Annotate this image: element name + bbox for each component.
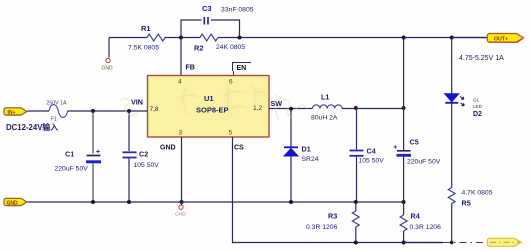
node rail junction R4 <box>402 200 406 204</box>
svg-text:105 50V: 105 50V <box>359 158 385 165</box>
inductor L1 <box>311 93 342 122</box>
svg-text:D2: D2 <box>473 111 482 118</box>
svg-text:7.5K 0805: 7.5K 0805 <box>128 45 159 52</box>
wire chip GND pin down <box>181 137 183 202</box>
svg-text:EN: EN <box>237 65 247 72</box>
resistor R5 <box>448 188 492 243</box>
svg-text:C4: C4 <box>367 147 376 156</box>
node VIN junction C2 <box>127 109 131 113</box>
svg-text:D1: D1 <box>302 145 311 154</box>
svg-text:6: 6 <box>229 79 233 86</box>
ground (top-left GND symbol) <box>102 58 114 71</box>
wire FB to pin 4 <box>180 38 182 76</box>
wire bottom out segment solid <box>404 242 443 244</box>
wire C1 column <box>92 111 94 202</box>
svg-text:SOP8-EP: SOP8-EP <box>196 106 229 115</box>
wire C4 column <box>356 108 358 202</box>
connector GND input <box>4 198 27 206</box>
svg-text:4: 4 <box>178 79 182 86</box>
resistor R1 <box>128 24 165 52</box>
wire SW line <box>269 108 404 110</box>
node bottom junction R5 <box>450 241 454 245</box>
svg-text:DC12-24V输入: DC12-24V输入 <box>6 122 58 132</box>
node FB junction <box>179 36 183 40</box>
svg-text:R4: R4 <box>411 212 420 221</box>
svg-text:C5: C5 <box>410 138 419 147</box>
wire input line <box>28 110 148 112</box>
svg-text:R2: R2 <box>194 44 204 53</box>
svg-text:C3: C3 <box>202 4 212 13</box>
svg-text:220uF 50V: 220uF 50V <box>407 159 441 166</box>
fuse F1 <box>47 101 68 123</box>
node VIN junction C1 <box>91 109 95 113</box>
connector OUT+ <box>487 33 523 42</box>
connector OUT- faded <box>487 238 521 246</box>
svg-text:C2: C2 <box>139 150 148 159</box>
watermark faint strokes <box>120 84 307 119</box>
svg-text:4.7K 0805: 4.7K 0805 <box>462 190 493 197</box>
svg-text:80uH 2A: 80uH 2A <box>311 115 338 122</box>
node bottom junction C2 <box>127 200 131 204</box>
svg-text:FB: FB <box>186 65 195 72</box>
svg-text:33nF 0805: 33nF 0805 <box>221 7 254 14</box>
svg-text:R3: R3 <box>328 212 337 221</box>
capacitor C1 <box>55 150 102 173</box>
svg-text:4.75-5.25V 1A: 4.75-5.25V 1A <box>459 55 504 62</box>
capacitor C3 <box>202 4 254 25</box>
node bottom junction R4 <box>402 241 406 245</box>
svg-text:GL: GL <box>473 98 480 103</box>
capacitor C5 <box>394 138 441 166</box>
svg-text:R5: R5 <box>462 199 471 208</box>
svg-text:0.3R 1206: 0.3R 1206 <box>306 224 338 231</box>
capacitor C2 <box>123 150 160 170</box>
node bottom junction R3 <box>354 241 358 245</box>
svg-text:3: 3 <box>179 130 183 137</box>
node D1 bottom junction <box>289 200 293 204</box>
wire C3 loop <box>181 20 240 38</box>
wire R1 left lead to ground <box>108 38 110 58</box>
svg-text:CS: CS <box>234 145 244 152</box>
wire output top to connector <box>452 37 488 39</box>
diode D1 <box>284 145 319 164</box>
node L1 out junction <box>354 106 358 110</box>
wire bottom ground rail <box>28 201 404 203</box>
svg-text:5: 5 <box>229 130 233 137</box>
wire chip CS pin down and across <box>233 137 444 243</box>
ground (chip GND symbol) <box>175 202 186 218</box>
wire D1 column <box>290 109 292 202</box>
svg-text:C1: C1 <box>65 150 74 159</box>
wire LED column <box>451 38 453 188</box>
svg-text:GND: GND <box>160 145 176 152</box>
node R2/C3 right junction <box>238 36 242 40</box>
svg-text:250V 1A: 250V 1A <box>47 101 67 107</box>
resistor R2 <box>194 34 245 52</box>
LED D2 <box>445 94 483 118</box>
resistor R4 <box>400 202 441 243</box>
node GND junction <box>179 200 183 204</box>
connector IN+ input <box>4 108 27 116</box>
node C5 top junction <box>402 106 406 110</box>
wire C2 column <box>128 111 130 202</box>
resistor R3 <box>306 202 359 243</box>
svg-text:F1: F1 <box>51 117 57 123</box>
node top rail junction C5 <box>402 36 406 40</box>
svg-text:VIN: VIN <box>131 98 143 107</box>
node SW junction D1 <box>289 107 293 111</box>
svg-text:0.3R 1206: 0.3R 1206 <box>410 224 442 231</box>
node top rail junction LED <box>450 36 454 40</box>
svg-text:GND: GND <box>102 66 114 72</box>
svg-text:LED: LED <box>473 104 483 109</box>
wire C5 column from top rail <box>403 38 405 203</box>
svg-text:220uF 50V: 220uF 50V <box>55 166 89 173</box>
node EN label with bracket <box>233 63 252 76</box>
svg-text:U1: U1 <box>204 94 214 103</box>
svg-text:7,8: 7,8 <box>150 106 159 113</box>
svg-text:24K 0805: 24K 0805 <box>216 44 245 51</box>
svg-text:L1: L1 <box>321 93 329 102</box>
wire bottom out segment dashed <box>443 242 488 244</box>
svg-text:105 50V: 105 50V <box>134 162 160 169</box>
svg-text:SR24: SR24 <box>302 156 319 163</box>
node rail junction R3 <box>354 200 358 204</box>
svg-text:GND: GND <box>175 212 186 218</box>
svg-text:R1: R1 <box>141 24 151 33</box>
wire top rail <box>109 37 488 39</box>
node bottom junction C1 <box>91 200 95 204</box>
op-amp U1 SOP8-EP body <box>148 76 270 138</box>
capacitor C4 <box>350 147 385 165</box>
